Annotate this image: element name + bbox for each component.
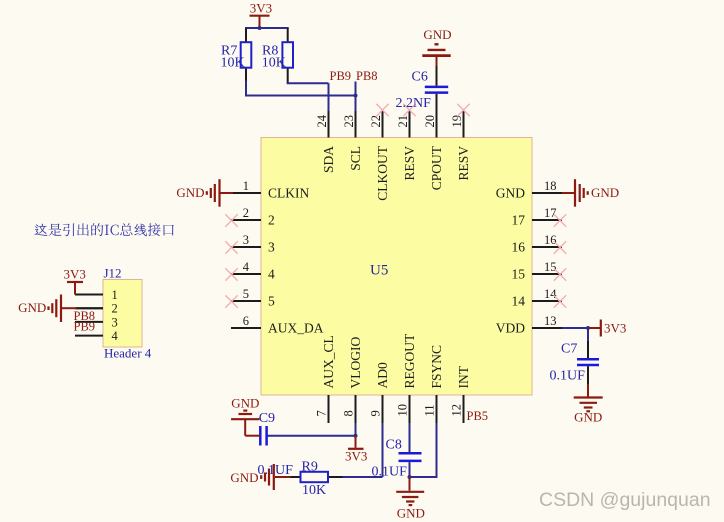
svg-text:4: 4 xyxy=(268,267,275,282)
pin 20 CPOUT (top) xyxy=(423,110,444,190)
svg-text:14: 14 xyxy=(512,294,526,309)
power port 3V3 (J12 pin 1) xyxy=(64,266,86,294)
pin 23 SCL (top) xyxy=(342,110,363,171)
J12 pin 3 xyxy=(75,315,118,329)
svg-text:23: 23 xyxy=(342,115,356,128)
ground GND (below C7) xyxy=(574,384,603,424)
wire AD0 xyxy=(343,423,383,477)
svg-text:17: 17 xyxy=(544,206,557,220)
svg-text:GND: GND xyxy=(231,396,259,411)
pin 18 GND (right) xyxy=(496,179,562,201)
svg-text:PB8: PB8 xyxy=(356,69,378,83)
svg-text:Header 4: Header 4 xyxy=(104,346,152,361)
resistor R8 xyxy=(282,28,293,83)
no-connect X pin 2 xyxy=(225,214,237,226)
pin 19 RESV (top) xyxy=(450,110,471,181)
svg-text:FSYNC: FSYNC xyxy=(429,345,444,389)
svg-text:C9: C9 xyxy=(259,411,275,426)
pin 13 VDD (right) xyxy=(496,314,562,336)
svg-text:GND: GND xyxy=(230,470,258,485)
ground GND (left of R9) xyxy=(230,464,290,490)
no-connect X pin 19 xyxy=(457,104,469,116)
svg-text:0.1UF: 0.1UF xyxy=(550,369,586,384)
resistor R7 xyxy=(241,28,252,82)
svg-text:J12: J12 xyxy=(104,266,122,281)
svg-text:VDD: VDD xyxy=(496,321,525,336)
svg-text:3V3: 3V3 xyxy=(604,320,626,335)
svg-text:19: 19 xyxy=(450,115,464,128)
svg-text:2: 2 xyxy=(112,302,118,316)
svg-text:AUX_DA: AUX_DA xyxy=(268,321,324,336)
J12 pin 2 xyxy=(75,302,118,316)
svg-text:15: 15 xyxy=(544,260,557,274)
svg-text:PB9: PB9 xyxy=(74,319,96,333)
junction C8/FSYNC xyxy=(408,475,412,479)
svg-text:8: 8 xyxy=(342,410,356,416)
svg-text:16: 16 xyxy=(512,240,526,255)
no-connect X pin 4 xyxy=(225,268,237,280)
power port 3V3 (bottom) xyxy=(345,436,367,464)
svg-text:GND: GND xyxy=(574,409,602,424)
pin 16 16 (right) xyxy=(512,233,563,255)
pin 4 4 (left) xyxy=(231,260,275,282)
svg-text:10K: 10K xyxy=(302,483,326,498)
svg-text:GND: GND xyxy=(176,185,204,200)
wire R7 to SCL (net PB8) xyxy=(245,81,356,96)
svg-text:C8: C8 xyxy=(386,438,402,453)
svg-text:4: 4 xyxy=(112,329,119,343)
wire FSYNC xyxy=(410,423,438,477)
wire VDD xyxy=(562,327,588,329)
svg-text:REGOUT: REGOUT xyxy=(402,333,417,388)
junction VLOGIO xyxy=(354,434,358,438)
svg-text:1: 1 xyxy=(243,179,249,193)
svg-text:C7: C7 xyxy=(561,341,577,356)
svg-text:9: 9 xyxy=(369,410,383,416)
capacitor C6 xyxy=(425,66,448,111)
capacitor C8 xyxy=(399,453,422,477)
wire 3V3 rail xyxy=(245,27,289,29)
svg-text:GND: GND xyxy=(496,186,525,201)
wire VLOGIO xyxy=(355,423,357,436)
svg-text:10K: 10K xyxy=(221,56,245,71)
svg-text:20: 20 xyxy=(423,115,437,128)
svg-text:CSDN @gujunquan: CSDN @gujunquan xyxy=(539,489,711,511)
svg-text:10: 10 xyxy=(396,404,410,417)
svg-text:PB5: PB5 xyxy=(467,409,489,423)
ground GND (pin 18) xyxy=(562,179,619,207)
svg-text:21: 21 xyxy=(396,115,410,128)
svg-text:15: 15 xyxy=(512,267,526,282)
no-connect X pin 16 xyxy=(554,241,566,253)
svg-text:10K: 10K xyxy=(262,56,286,71)
junction PB8 xyxy=(354,94,358,98)
J12 pin 4 xyxy=(75,329,119,343)
svg-text:17: 17 xyxy=(512,213,526,228)
pin 6 AUX_DA (left) xyxy=(231,314,324,336)
svg-text:C6: C6 xyxy=(412,70,428,85)
pin 22 CLKOUT (top) xyxy=(369,110,390,201)
svg-text:CPOUT: CPOUT xyxy=(429,145,444,190)
svg-text:R9: R9 xyxy=(302,460,318,475)
power port 3V3 (top) xyxy=(250,1,273,28)
svg-text:AD0: AD0 xyxy=(375,362,390,388)
svg-text:22: 22 xyxy=(369,115,383,128)
no-connect X pin 5 xyxy=(225,295,237,307)
svg-text:13: 13 xyxy=(544,314,557,328)
svg-text:0.1UF: 0.1UF xyxy=(258,463,294,478)
IC U5 body xyxy=(261,138,532,396)
pin 24 SDA (top) xyxy=(315,110,336,173)
svg-text:3: 3 xyxy=(268,240,275,255)
svg-text:2: 2 xyxy=(268,213,275,228)
junction VDD xyxy=(586,326,590,330)
note text (Chinese): IIC bus interface xyxy=(35,223,174,236)
svg-text:2: 2 xyxy=(243,206,249,220)
svg-text:U5: U5 xyxy=(370,263,388,279)
connector J12 body xyxy=(103,280,142,348)
svg-text:14: 14 xyxy=(544,287,557,301)
wire REGOUT xyxy=(409,423,411,452)
no-connect X pin 21 xyxy=(403,104,415,116)
svg-text:AUX_CL: AUX_CL xyxy=(321,335,336,388)
svg-text:0.1UF: 0.1UF xyxy=(372,465,408,480)
svg-text:12: 12 xyxy=(450,404,464,417)
J12 pin 1 xyxy=(75,288,118,302)
pin 3 3 (left) xyxy=(231,233,275,255)
svg-text:5: 5 xyxy=(268,294,275,309)
svg-text:3V3: 3V3 xyxy=(345,449,367,464)
svg-text:18: 18 xyxy=(544,179,557,193)
svg-text:RESV: RESV xyxy=(456,146,471,181)
svg-text:GND: GND xyxy=(591,185,619,200)
svg-text:3V3: 3V3 xyxy=(64,266,86,281)
ground GND (J12 pin 2) xyxy=(18,295,103,323)
svg-text:GND: GND xyxy=(397,505,425,520)
svg-text:PB9: PB9 xyxy=(330,69,352,83)
svg-text:3V3: 3V3 xyxy=(250,1,272,16)
capacitor C9 xyxy=(260,426,266,446)
svg-text:3: 3 xyxy=(243,233,249,247)
svg-text:6: 6 xyxy=(243,314,249,328)
pin 5 5 (left) xyxy=(231,287,275,309)
pin 9 AD0 (bottom) xyxy=(369,362,391,423)
svg-text:11: 11 xyxy=(423,404,437,416)
ground GND (pin 1 CLKIN) xyxy=(176,179,233,207)
pin 17 17 (right) xyxy=(512,206,563,228)
svg-text:SCL: SCL xyxy=(348,146,363,171)
svg-text:1: 1 xyxy=(112,288,118,302)
wire R8 to SDA (net PB9) xyxy=(287,82,329,111)
svg-text:16: 16 xyxy=(544,233,557,247)
svg-text:RESV: RESV xyxy=(402,146,417,181)
no-connect X pin 17 xyxy=(554,214,566,226)
capacitor C7 xyxy=(577,341,599,385)
ground GND (above C9) xyxy=(231,396,260,436)
pin 15 15 (right) xyxy=(512,260,563,282)
svg-text:7: 7 xyxy=(315,410,329,416)
svg-text:24: 24 xyxy=(315,114,329,127)
no-connect X pin 22 xyxy=(376,104,388,116)
label R8 xyxy=(262,43,286,70)
pin 14 14 (right) xyxy=(512,287,563,309)
wire C9 to VLOGIO xyxy=(267,435,356,437)
pin 7 AUX_CL (bottom) xyxy=(315,335,337,423)
svg-text:GND: GND xyxy=(18,300,46,315)
pin 12 INT (bottom) xyxy=(450,365,472,423)
label R7 xyxy=(221,43,245,70)
svg-text:5: 5 xyxy=(243,287,249,301)
no-connect X pin 15 xyxy=(554,268,566,280)
pin 8 VLOGIO (bottom) xyxy=(342,337,364,423)
power port GND (above C6) xyxy=(422,27,451,66)
pin 10 REGOUT (bottom) xyxy=(396,333,418,423)
svg-text:VLOGIO: VLOGIO xyxy=(348,337,363,389)
no-connect X pin 14 xyxy=(554,295,566,307)
svg-text:GND: GND xyxy=(423,27,451,42)
svg-text:SDA: SDA xyxy=(321,146,336,173)
wire VDD to C7 xyxy=(587,328,589,342)
pin 11 FSYNC (bottom) xyxy=(423,345,445,423)
svg-text:CLKOUT: CLKOUT xyxy=(375,145,390,200)
pin 1 CLKIN (left) xyxy=(231,179,309,201)
resistor R9 xyxy=(290,472,343,482)
no-connect X pin 3 xyxy=(225,241,237,253)
junction 3V3/R7/R8 xyxy=(258,26,262,30)
svg-text:3: 3 xyxy=(112,315,118,329)
svg-text:CLKIN: CLKIN xyxy=(268,186,309,201)
svg-text:4: 4 xyxy=(243,260,250,274)
wire SCL stub xyxy=(355,82,357,112)
svg-text:2.2NF: 2.2NF xyxy=(396,96,432,111)
power port 3V3 (right) xyxy=(588,320,626,337)
ground GND (below C8) xyxy=(396,477,425,520)
svg-text:INT: INT xyxy=(456,365,471,388)
pin 21 RESV (top) xyxy=(396,110,417,181)
pin 2 2 (left) xyxy=(231,206,275,228)
